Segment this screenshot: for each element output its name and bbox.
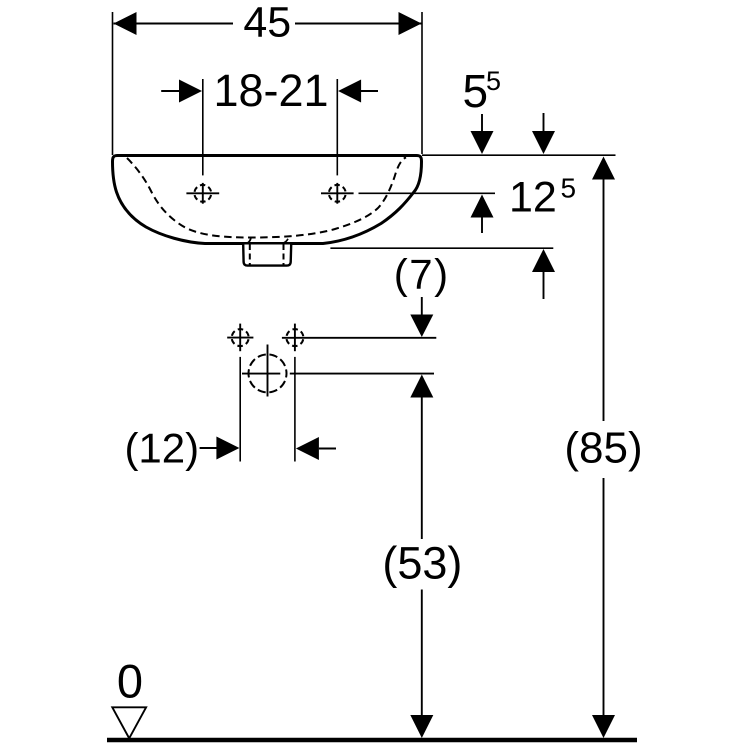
tap hole left cross [186, 192, 219, 194]
svg-text:12: 12 [509, 173, 557, 221]
dim 18-21 arrow right [338, 80, 361, 103]
tap hole right circle [329, 185, 346, 202]
svg-text:(7): (7) [394, 251, 450, 298]
dim (12) arrow left [200, 447, 218, 449]
dim 45 line left seg [114, 23, 234, 25]
dim 18-21 ext line left [202, 79, 204, 175]
dim 12.5 arrow up to line B [471, 195, 494, 218]
svg-text:(85): (85) [564, 423, 642, 472]
dim 45 ext line left [112, 12, 114, 155]
level line C basin bottom [330, 247, 553, 249]
tenon fillet tick right [283, 239, 288, 243]
svg-text:5: 5 [561, 173, 577, 204]
anchor hole left cross [227, 337, 253, 339]
svg-text:45: 45 [243, 0, 291, 46]
datum triangle [112, 707, 146, 738]
dim (85) line lower + arrow down [603, 478, 605, 716]
svg-text:5: 5 [463, 65, 489, 117]
dim 45 arrow right [399, 12, 422, 35]
tenon hidden line right [283, 244, 285, 265]
dim 45 ext line right [421, 12, 423, 154]
dim (12) arrow right [296, 437, 319, 460]
dim 45 line right seg [295, 23, 422, 25]
level line A top rim [422, 154, 616, 156]
tenon hidden line left [249, 244, 251, 265]
drain cross vertical [267, 345, 269, 397]
drain tenon [243, 245, 291, 266]
dim (12) ext line right [294, 357, 296, 462]
svg-text:5: 5 [486, 66, 501, 96]
floor line [107, 738, 637, 743]
dim 18-21 arrow left [179, 80, 202, 103]
dim (53) arrow up [410, 375, 433, 398]
svg-text:0: 0 [117, 654, 143, 707]
svg-text:(12): (12) [124, 425, 199, 472]
drain circle [249, 354, 287, 392]
dim (7) arrow down [421, 297, 423, 315]
anchor hole right circle [286, 329, 303, 346]
svg-text:18-21: 18-21 [213, 65, 328, 116]
arrow up to line C [532, 249, 555, 272]
anchor hole left circle [232, 329, 249, 346]
drain cross horizontal [242, 373, 280, 375]
dim 18-21 tail left [161, 90, 180, 92]
anchor hole right cross + level line [282, 337, 436, 339]
tap hole left circle [194, 185, 211, 202]
washbasin inner bowl dashed [127, 157, 406, 237]
tenon fillet tick left [247, 238, 251, 243]
dim 45 arrow left [114, 12, 137, 35]
svg-text:(53): (53) [382, 538, 462, 589]
dim 5.5 arrow 2 [543, 113, 545, 132]
dim (85) arrow up [592, 157, 615, 180]
level line B tap holes [359, 192, 496, 194]
washbasin outer outline [113, 156, 422, 244]
dim (12) ext line left [239, 357, 241, 462]
dim (53) line lower + arrow down [421, 590, 423, 716]
dim 18-21 ext line right [336, 79, 338, 175]
dim 5.5 arrow 1 [481, 114, 483, 132]
tap hole right cross [321, 192, 354, 194]
dim 18-21 tail right [360, 90, 378, 92]
